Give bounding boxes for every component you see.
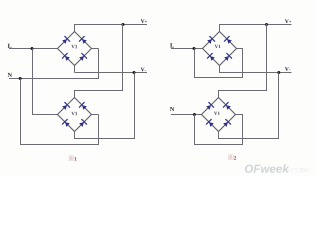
wire: fig2 L drop (194, 49, 196, 78)
label V1 (fig1 bottom) (71, 112, 77, 115)
diode D2c lower-left (62, 119, 70, 127)
diode D2d lower-right (79, 119, 87, 127)
label: figure 1 caption (69, 156, 74, 161)
diode D1d lower-right (79, 53, 87, 61)
node: junction dot on fig2 top rail (265, 23, 268, 26)
label V1 (fig2 bottom) (214, 112, 220, 115)
wire: fig2 V+ drop to bottom bridge plus rail (266, 24, 268, 91)
wire: fig2 bottom bridge plus rail (219, 90, 268, 92)
node L: input label fig2 (170, 43, 174, 47)
diode D4d lower-right (223, 119, 231, 127)
wire: stub from fig1 top bridge right vertex (92, 48, 99, 50)
wire: L drop down to bottom bridge left vertex level (32, 49, 34, 115)
diode D1b upper-right (79, 36, 87, 44)
wire: fig2 V- rail (220, 72, 292, 74)
node V-: terminal label fig1 (141, 68, 146, 72)
wire: fig2 bottom-bridge right stub riser (242, 115, 244, 145)
watermark: site name small (285, 168, 308, 172)
node: junction dot on fig2 L wire (193, 47, 196, 50)
wire: riser from fig2 top rail to top bridge plus vertex (219, 24, 221, 32)
wire: riser to fig2 bottom bridge plus vertex (218, 90, 220, 98)
wire: riser from top rail to bridge V1-top plus vertex (74, 24, 76, 32)
bridge rectifier V1 (fig2 top): diamond edges (203, 32, 237, 66)
node: junction dot on V- rail (133, 71, 136, 74)
node: junction dot on fig2 N wire (193, 113, 196, 116)
wire: fig1 top bridge minus vertex drop to V- rail (74, 66, 76, 73)
wire: fig2 L input to top bridge left vertex (171, 48, 203, 50)
wire: fig1 top-bridge right stub drop to N rail (98, 49, 100, 79)
diode D1c lower-left (62, 53, 70, 61)
label: figure 2 caption (228, 155, 233, 160)
label V1 (fig1 top) (71, 45, 77, 48)
wire: fig1 bottom bridge minus rail (75, 138, 136, 140)
node: junction dot on L wire (31, 47, 34, 50)
node: junction dot on fig2 V- rail (277, 71, 280, 74)
wire: fig1 bottom return (20, 144, 99, 146)
node V-: terminal label fig2 (285, 67, 290, 71)
diode D3b upper-right (224, 36, 232, 44)
node: junction dot on top rail (122, 23, 125, 26)
wire: fig2 top bridge minus vertex drop to V- rail (219, 66, 221, 74)
diode D3c lower-left (207, 53, 215, 61)
node N: input label fig2 (170, 107, 174, 111)
wire: stub from fig2 bottom bridge right vertex (236, 114, 244, 116)
wire: fig2 bottom return (194, 144, 243, 146)
wire: fig2 bottom bridge minus rail (219, 138, 280, 140)
wire: fig1 bottom bridge minus vertex drop (74, 132, 76, 140)
watermark: OFweek (245, 164, 289, 173)
wire: N input rail to top-bridge right stub (9, 78, 99, 80)
bridge rectifier V1 (fig1 top): diamond edges (58, 32, 92, 66)
node: junction dot on N wire (19, 77, 22, 80)
wire: fig2 L branch across to right stub (194, 77, 243, 79)
node V+: terminal label fig1 (141, 19, 147, 23)
bridge rectifier V1 (fig2 bottom): diamond edges (202, 98, 236, 132)
wire: stub from fig1 bottom bridge right vertex (92, 114, 99, 116)
wire: fig2 N drop to bottom return (194, 115, 196, 145)
diode D1a upper-left (62, 36, 70, 44)
node N: input label fig1 (8, 73, 12, 77)
wire: fig2 top rail to V+ (220, 24, 292, 26)
wire: fig1 V- drop to bottom bridge minus rail (134, 73, 136, 139)
wire: fig1 V- rail (75, 72, 148, 74)
wire: fig2 V- drop to bottom bridge minus rail (278, 73, 280, 139)
wire: fig2 top-bridge right stub drop (242, 49, 244, 79)
wire: N drop to bottom return wire (20, 79, 22, 145)
wire: L input to bridge V1-top left vertex (9, 48, 58, 50)
diode D2a upper-left (62, 102, 70, 110)
wire: L branch into fig1 bottom bridge left vertex (32, 114, 58, 116)
diode D3d lower-right (224, 53, 232, 61)
diode D4b upper-right (223, 102, 231, 110)
node L: input label fig1 (8, 44, 12, 48)
diode D2b upper-right (79, 102, 87, 110)
wire: riser to fig1 bottom bridge plus vertex (74, 90, 76, 98)
wire: stub from fig2 top bridge right vertex (237, 48, 244, 50)
wire: V+ drop from top rail to bottom bridge plus rail (122, 24, 124, 91)
diode D4a upper-left (206, 102, 214, 110)
node V+: terminal label fig2 (285, 19, 291, 23)
wire: fig1 bottom-bridge right stub riser (98, 115, 100, 145)
wire: fig1 bottom bridge plus rail (75, 90, 124, 92)
wire: fig1 top rail to V+ (75, 24, 148, 26)
wire: fig2 N input to bottom bridge left vertex (171, 114, 202, 116)
diode D3a upper-left (207, 36, 215, 44)
label V1 (fig2 top) (215, 45, 221, 48)
wire: fig2 bottom bridge minus vertex drop (218, 132, 220, 140)
bridge rectifier V1 (fig1 bottom): diamond edges (58, 98, 92, 132)
diode D4c lower-left (206, 119, 214, 127)
